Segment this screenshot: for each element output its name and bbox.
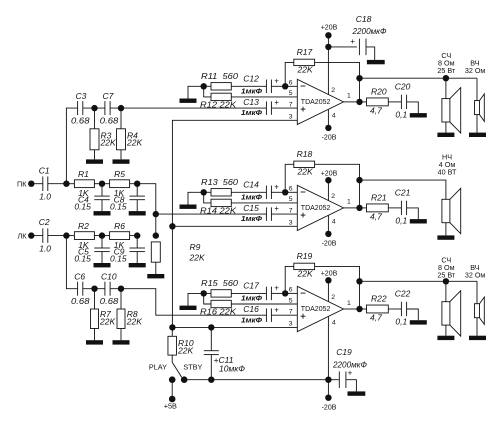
svg-text:R18: R18 — [297, 149, 313, 159]
wire — [271, 213, 297, 215]
wire — [360, 308, 367, 310]
node C11 tap — [208, 324, 214, 330]
node C11 bottom — [208, 377, 214, 383]
wire — [204, 85, 211, 87]
wire — [101, 252, 103, 263]
wire — [231, 202, 297, 204]
ground — [113, 159, 130, 163]
capacitor C8 — [129, 195, 145, 197]
ground — [86, 340, 103, 344]
svg-text:R16 22K: R16 22K — [200, 307, 236, 317]
svg-text:+: + — [274, 98, 279, 107]
capacitor C20 — [400, 95, 402, 109]
ground — [437, 235, 454, 239]
ground — [367, 60, 385, 64]
wire — [271, 314, 297, 316]
node after R2 — [99, 232, 105, 238]
node input ЛК — [63, 232, 69, 238]
capacitor C9 — [129, 247, 145, 249]
svg-text:1мкФ: 1мкФ — [241, 108, 262, 117]
wire — [445, 122, 447, 133]
wire — [360, 207, 367, 209]
wire — [359, 180, 361, 208]
capacitor C18 2200uF — [358, 39, 360, 56]
resistor R11 — [211, 83, 231, 90]
wire — [66, 235, 74, 237]
capacitor C17 — [265, 287, 267, 301]
svg-text:R21: R21 — [371, 192, 387, 202]
svg-text:3: 3 — [289, 220, 293, 227]
resistor R7 — [91, 309, 99, 329]
capacitor C7 — [104, 101, 106, 115]
resistor R3 — [90, 129, 99, 150]
node mix LK — [153, 232, 159, 238]
-20V terminal — [325, 231, 331, 237]
svg-text:TDA2052: TDA2052 — [301, 306, 331, 313]
resistor R10 — [168, 336, 177, 355]
svg-text:3: 3 — [289, 321, 293, 328]
svg-text:22K: 22K — [189, 253, 205, 263]
wire — [172, 225, 297, 227]
svg-text:+: + — [274, 182, 279, 191]
capacitor C21 — [400, 201, 402, 215]
wire — [156, 213, 267, 215]
resistor R14 — [211, 199, 231, 206]
svg-text:1: 1 — [347, 93, 351, 100]
ground — [180, 306, 197, 310]
svg-text:1мкФ: 1мкФ — [241, 315, 262, 324]
svg-text:C12: C12 — [243, 73, 259, 83]
+20V terminal — [325, 32, 331, 38]
node C10 out — [118, 286, 124, 292]
svg-text:5: 5 — [289, 90, 293, 97]
wire — [204, 86, 211, 97]
svg-text:6: 6 — [289, 186, 293, 193]
svg-text:C22: C22 — [395, 289, 411, 299]
ground — [86, 159, 103, 163]
svg-text:5: 5 — [289, 196, 293, 203]
svg-text:22K: 22K — [100, 137, 116, 147]
svg-text:7: 7 — [289, 101, 293, 108]
svg-text:C6: C6 — [74, 271, 85, 281]
speaker VCH 32 Ohm — [475, 101, 480, 115]
svg-text:+20В: +20В — [321, 271, 338, 278]
svg-text:+20В: +20В — [321, 25, 338, 32]
node SCH speaker tap — [443, 278, 449, 284]
wire — [188, 293, 204, 305]
wire — [285, 164, 294, 192]
wire — [327, 109, 329, 128]
wire — [315, 164, 360, 180]
svg-text:R17: R17 — [297, 47, 313, 57]
op-amp U2 TDA2052 — [297, 185, 343, 230]
capacitor C16 — [265, 308, 267, 322]
svg-text:C18: C18 — [356, 14, 372, 24]
svg-text:STBY: STBY — [183, 362, 202, 371]
ground — [410, 219, 427, 223]
wire — [204, 191, 211, 193]
wire — [344, 308, 360, 310]
op-amp U1 TDA2052 — [297, 79, 343, 124]
node U3 pin6 — [282, 290, 288, 296]
svg-text:R20: R20 — [371, 86, 387, 96]
svg-text:R12 22K: R12 22K — [200, 99, 236, 109]
ground — [129, 263, 146, 267]
wire — [188, 192, 204, 204]
svg-text:0.15: 0.15 — [110, 202, 127, 212]
wire — [231, 96, 297, 98]
wire — [344, 207, 360, 209]
wire — [360, 101, 367, 103]
ground — [348, 391, 366, 395]
wire — [476, 318, 478, 336]
ground — [410, 113, 427, 117]
wire mixer riser — [137, 184, 156, 236]
capacitor C19 2200uF — [338, 371, 340, 388]
resistor R2 — [74, 232, 94, 240]
svg-text:C7: C7 — [103, 91, 114, 101]
svg-text:C16: C16 — [243, 304, 259, 314]
svg-text:10мкФ: 10мкФ — [219, 363, 245, 373]
wire standby rail — [184, 379, 339, 381]
svg-text:R2: R2 — [78, 221, 89, 231]
wire — [407, 309, 419, 320]
wire — [94, 235, 109, 237]
wire pin3 bus — [172, 120, 297, 327]
wire — [327, 280, 329, 301]
+20V terminal — [325, 177, 331, 183]
node -20V rail — [325, 377, 331, 383]
wire — [285, 292, 297, 294]
wire — [136, 252, 138, 263]
node after R1 — [99, 181, 105, 187]
wire — [66, 236, 77, 289]
node SCH speaker tap — [443, 75, 449, 81]
resistor R4 — [117, 129, 126, 150]
svg-text:-20В: -20В — [322, 134, 337, 141]
wire — [31, 183, 43, 185]
svg-text:1мкФ: 1мкФ — [241, 294, 262, 303]
wire — [120, 289, 122, 309]
svg-text:5: 5 — [289, 297, 293, 304]
svg-text:TDA2052: TDA2052 — [301, 99, 331, 106]
svg-text:22K: 22K — [126, 137, 142, 147]
svg-text:22K: 22K — [126, 316, 142, 326]
node pin3 ch3 / R10 tap — [169, 324, 175, 330]
wire — [346, 380, 357, 392]
wire — [171, 327, 173, 336]
capacitor C15 — [265, 207, 267, 221]
wire — [445, 281, 447, 301]
capacitor C1 — [42, 176, 44, 191]
svg-text:+: + — [274, 305, 279, 314]
node after R6 — [134, 232, 140, 238]
wire — [476, 281, 478, 303]
node mix to C15 — [153, 211, 159, 217]
node C3-C7 — [91, 105, 97, 111]
wire — [231, 303, 297, 305]
svg-text:40 ВТ: 40 ВТ — [438, 168, 457, 177]
wire — [271, 107, 297, 109]
svg-text:R19: R19 — [297, 251, 313, 261]
wire — [48, 235, 67, 237]
capacitor C5 — [94, 247, 110, 249]
svg-text:PLAY: PLAY — [149, 362, 167, 371]
wire — [445, 223, 447, 236]
svg-text:+: + — [274, 284, 279, 293]
svg-text:32 Ом: 32 Ом — [465, 270, 486, 279]
speaker NCH 4 Ohm 40 W — [442, 199, 450, 222]
svg-text:C15: C15 — [243, 203, 259, 213]
svg-text:4: 4 — [332, 219, 336, 226]
svg-text:R11 560: R11 560 — [201, 71, 238, 81]
svg-text:C14: C14 — [243, 179, 259, 189]
svg-text:2200мкФ: 2200мкФ — [352, 26, 387, 36]
svg-text:R5: R5 — [114, 169, 125, 179]
node input divider junction ch3 — [201, 290, 207, 296]
node C6-C10 — [91, 286, 97, 292]
wire to C16 row — [110, 289, 266, 316]
ground — [180, 205, 197, 209]
capacitor C12 — [265, 80, 267, 94]
wire — [94, 150, 96, 160]
node after R5 — [134, 181, 140, 187]
svg-text:C20: C20 — [395, 82, 411, 92]
svg-text:0,1: 0,1 — [395, 216, 407, 226]
svg-text:2: 2 — [331, 294, 335, 301]
wire — [285, 191, 297, 193]
wire — [328, 46, 357, 48]
input terminal ПК — [28, 181, 34, 187]
wire — [83, 288, 105, 290]
svg-text:R1: R1 — [78, 169, 89, 179]
node U1 pin6 — [282, 83, 288, 89]
ground — [180, 99, 197, 103]
wire — [155, 262, 157, 274]
wire — [327, 215, 329, 234]
resistor R16 — [211, 300, 231, 307]
wire — [476, 115, 478, 133]
wire — [315, 266, 360, 281]
wire — [48, 183, 67, 185]
svg-text:+: + — [274, 204, 279, 213]
svg-text:4: 4 — [332, 113, 336, 120]
node input ПК — [63, 181, 69, 187]
svg-text:0,1: 0,1 — [395, 317, 407, 327]
svg-text:TDA2052: TDA2052 — [301, 205, 331, 212]
op-amp U3 TDA2052 — [297, 286, 343, 331]
wire — [66, 108, 77, 184]
svg-text:7: 7 — [289, 207, 293, 214]
wire speaker rail — [360, 280, 478, 282]
svg-text:32 Ом: 32 Ом — [465, 66, 486, 75]
wire — [172, 326, 297, 328]
svg-text:6: 6 — [289, 80, 293, 87]
ground — [469, 336, 486, 340]
svg-text:3: 3 — [289, 114, 293, 121]
svg-text:+5В: +5В — [164, 401, 177, 410]
svg-text:1: 1 — [347, 300, 351, 307]
svg-text:1мкФ: 1мкФ — [241, 192, 262, 201]
wire — [188, 86, 204, 98]
wire — [130, 183, 138, 185]
ground — [437, 336, 454, 340]
svg-text:22K: 22K — [297, 167, 313, 177]
wire — [204, 293, 211, 304]
svg-text:4: 4 — [332, 320, 336, 327]
switch contact STBY — [181, 376, 188, 383]
wire — [366, 47, 375, 60]
wire — [120, 329, 122, 341]
svg-text:22K: 22K — [297, 65, 313, 75]
resistor R19 feedback — [294, 263, 315, 269]
svg-text:C1: C1 — [39, 165, 50, 175]
svg-text:+: + — [274, 76, 279, 85]
svg-text:0.15: 0.15 — [74, 253, 91, 263]
svg-text:22K: 22K — [297, 269, 313, 279]
node +20V rail junction — [325, 44, 331, 50]
resistor R13 — [211, 189, 231, 196]
wire — [231, 292, 266, 294]
svg-text:+20В: +20В — [321, 170, 338, 177]
svg-text:C17: C17 — [243, 281, 259, 291]
speaker SCH 8 Ohm 25 W — [442, 99, 450, 122]
node pin3 ch2 — [169, 223, 175, 229]
node speaker rail ch1 — [356, 75, 362, 81]
svg-text:1: 1 — [347, 199, 351, 206]
wire — [94, 183, 109, 185]
wire — [120, 108, 122, 129]
wire — [327, 180, 329, 200]
wire — [136, 184, 138, 196]
resistor R1 — [74, 180, 94, 188]
wire — [66, 183, 74, 185]
wire — [271, 292, 285, 294]
svg-text:0.15: 0.15 — [110, 253, 127, 263]
wire — [407, 102, 419, 113]
-20V terminal ch3 — [327, 380, 329, 398]
resistor R12 — [211, 93, 231, 100]
switch PLAY/STBY — [171, 355, 173, 362]
svg-text:1.0: 1.0 — [39, 243, 51, 253]
capacitor C22 — [400, 302, 402, 316]
svg-text:C10: C10 — [101, 271, 117, 281]
capacitor C11 10uF — [204, 350, 219, 352]
ground — [410, 320, 427, 324]
svg-text:-20В: -20В — [322, 240, 337, 247]
-20V terminal — [325, 125, 331, 131]
resistor R15 — [211, 290, 231, 297]
resistor R8 — [117, 309, 125, 329]
+5V terminal — [171, 380, 173, 399]
capacitor C14 — [265, 186, 267, 200]
wire — [94, 108, 96, 129]
svg-text:+: + — [350, 37, 355, 46]
wire — [94, 329, 96, 341]
wire — [231, 85, 266, 87]
wire — [231, 191, 266, 193]
resistor R20 — [367, 98, 389, 106]
resistor R9 — [151, 242, 160, 262]
node U3 output — [356, 306, 362, 312]
wire — [136, 236, 138, 248]
wire — [285, 62, 294, 86]
input terminal ЛК — [28, 232, 34, 238]
node U2 pin6 — [282, 189, 288, 195]
ground — [94, 211, 111, 215]
svg-text:25 Вт: 25 Вт — [437, 66, 456, 75]
svg-text:-20В: -20В — [322, 405, 337, 412]
svg-text:C19: C19 — [336, 347, 352, 357]
wire — [31, 235, 43, 237]
ground — [94, 263, 111, 267]
svg-text:2: 2 — [331, 193, 335, 200]
wire — [388, 308, 401, 310]
wire — [445, 325, 447, 336]
wire — [204, 192, 211, 203]
svg-text:+: + — [348, 369, 353, 378]
ground — [129, 211, 146, 215]
wire — [210, 355, 212, 380]
wire — [407, 208, 419, 219]
wire — [359, 281, 361, 309]
resistor R5 — [110, 180, 130, 188]
wire — [476, 78, 478, 100]
wire speaker rail — [360, 77, 478, 79]
capacitor C3 — [77, 101, 79, 115]
switch contact PLAY — [169, 376, 176, 383]
svg-text:C2: C2 — [39, 217, 50, 227]
svg-text:R15 560: R15 560 — [201, 278, 238, 288]
node speaker rail ch2 — [356, 177, 362, 183]
node speaker rail ch3 — [356, 278, 362, 284]
svg-text:1мкФ: 1мкФ — [241, 86, 262, 95]
ground — [469, 133, 486, 137]
+20V terminal — [325, 277, 331, 283]
svg-text:0,1: 0,1 — [395, 110, 407, 120]
svg-text:4,7: 4,7 — [370, 105, 382, 115]
resistor R21 — [367, 204, 389, 212]
wire — [204, 292, 211, 294]
ground — [437, 133, 454, 137]
wire — [101, 200, 103, 211]
wire — [388, 207, 401, 209]
wire — [445, 78, 447, 98]
svg-text:R22: R22 — [371, 294, 387, 304]
wire — [136, 200, 138, 211]
capacitor C4 — [94, 195, 110, 197]
svg-text:0.68: 0.68 — [71, 115, 90, 125]
wire — [359, 78, 361, 102]
node input divider junction ch1 — [201, 83, 207, 89]
wire — [94, 289, 96, 309]
svg-text:4,7: 4,7 — [370, 312, 382, 322]
wire — [327, 316, 329, 379]
capacitor C2 — [42, 228, 44, 243]
ground — [113, 340, 130, 344]
svg-text:22K: 22K — [99, 316, 115, 326]
wire speaker rail — [360, 180, 446, 199]
node U1 output — [356, 99, 362, 105]
wire — [101, 236, 103, 248]
resistor R17 feedback — [294, 59, 315, 65]
wire — [210, 327, 212, 350]
svg-text:6: 6 — [289, 287, 293, 294]
node input divider junction ch2 — [201, 189, 207, 195]
wire — [271, 85, 285, 87]
svg-text:R9: R9 — [190, 242, 201, 252]
svg-text:1мкФ: 1мкФ — [241, 214, 262, 223]
